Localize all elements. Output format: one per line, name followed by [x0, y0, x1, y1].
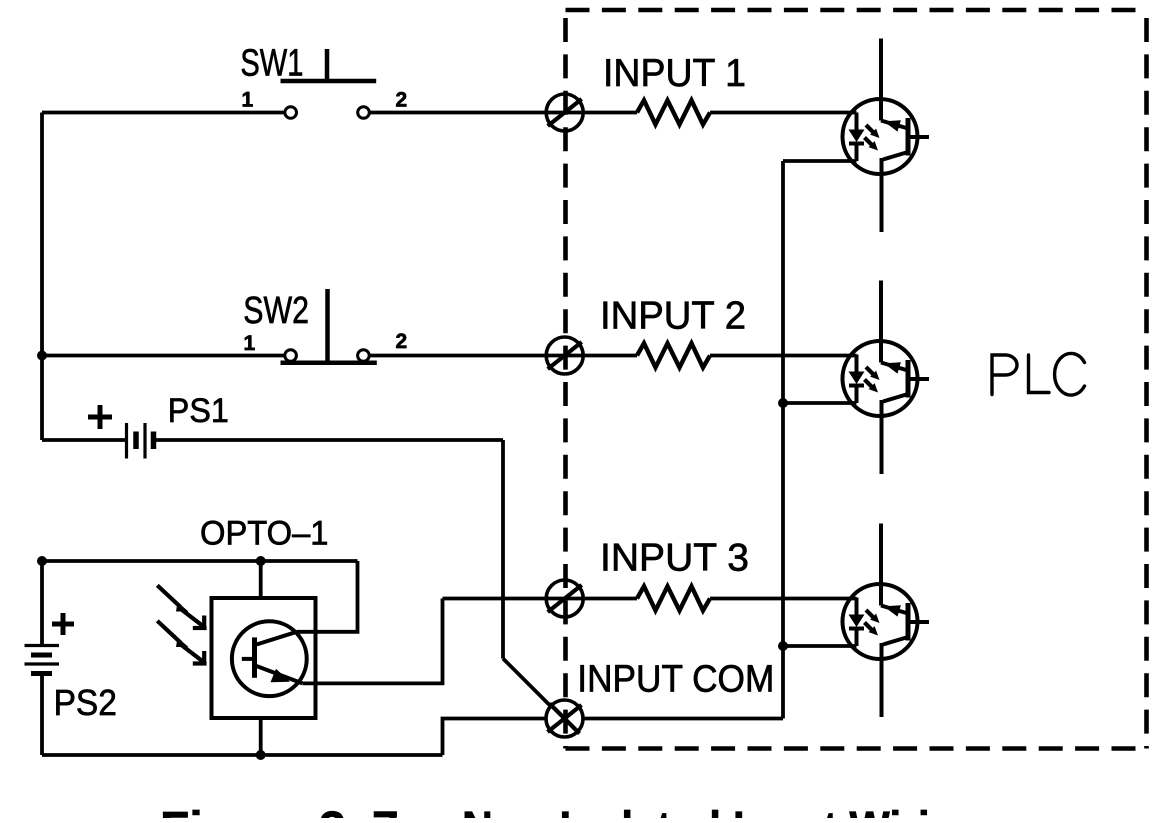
- terminal INPUT 2: [546, 337, 583, 374]
- wire OPTO-1 bottom lead: [259, 718, 263, 755]
- PLC enclosure dashed border top: [566, 8, 1147, 13]
- battery PS1 plates: [125, 423, 128, 459]
- switch SW1 actuator stem: [325, 49, 330, 81]
- svg-text:1: 1: [242, 89, 254, 112]
- wire row1 left: [42, 111, 285, 115]
- wire bottom riser to INPUT COM: [443, 719, 547, 756]
- wire left rail top section: [40, 113, 44, 441]
- switch SW2 contact 1: [285, 350, 297, 362]
- svg-text:3.7: 3.7: [319, 803, 405, 818]
- wire PS1 vertical drop: [501, 440, 505, 659]
- switch SW1 contact 2: [358, 107, 370, 119]
- wire row2 right: [710, 354, 857, 358]
- svg-text:SW2: SW2: [243, 290, 309, 332]
- wire return rail to INPUT COM: [583, 717, 783, 721]
- wire row2 left: [42, 354, 285, 358]
- wire OPTO-1 emitter out: [302, 599, 442, 684]
- switch SW2 actuator bar (closed): [281, 360, 377, 365]
- opto-coupler U1 (INPUT 1): [843, 39, 930, 233]
- OPTO-1 package box: [212, 598, 316, 718]
- node: junction PS2 top: [37, 556, 47, 566]
- transistor Q1 inside OPTO-1: [232, 621, 307, 696]
- svg-text:INPUT 1: INPUT 1: [603, 52, 746, 95]
- wire OPTO-1 top rail: [42, 559, 358, 563]
- battery PS2 plates: [25, 644, 60, 647]
- wire row1 middle: [369, 111, 637, 115]
- OPTO-1 light arrow upper: [157, 585, 206, 628]
- node: junction OPTO-1 top lead: [256, 556, 266, 566]
- node: junction rail/opto3 cathode: [778, 641, 788, 651]
- resistor R2 (INPUT 2): [637, 343, 710, 367]
- wire bottom return: [42, 753, 443, 757]
- wire OPTO-1 top lead: [259, 561, 263, 598]
- wire row3 left: [443, 597, 638, 601]
- wire PS2 bottom lead: [40, 674, 44, 756]
- PS1 plus sign: [88, 405, 112, 429]
- opto-coupler U2 (INPUT 2): [843, 281, 930, 475]
- node: junction OPTO-1 bottom: [256, 750, 266, 760]
- terminal INPUT 1: [546, 94, 583, 131]
- svg-text:2: 2: [396, 89, 408, 112]
- wire row1 right: [710, 111, 857, 115]
- terminal INPUT COM: [546, 700, 583, 737]
- terminal INPUT 3: [546, 580, 583, 617]
- wire opto2 cathode: [783, 401, 857, 405]
- node: junction left rail / SW2 row: [37, 351, 47, 361]
- wire row2 middle: [369, 354, 637, 358]
- switch SW2 actuator stem: [325, 289, 330, 363]
- wire PS1 right lead: [154, 438, 504, 442]
- OPTO-1 light arrow lower: [157, 621, 206, 664]
- resistor R3 (INPUT 3): [637, 586, 710, 610]
- resistor R1 (INPUT 1): [637, 100, 710, 124]
- svg-text:2: 2: [396, 330, 408, 353]
- wire PS1 left lead: [42, 438, 127, 442]
- svg-text:PS1: PS1: [168, 392, 229, 430]
- PLC enclosure dashed border right: [1144, 18, 1149, 749]
- wire OPTO-1 collector loop: [297, 561, 358, 632]
- switch SW1 actuator bar: [281, 79, 377, 84]
- svg-text:INPUT 3: INPUT 3: [600, 536, 749, 579]
- label PLC (plotter strokes): [992, 353, 1085, 395]
- svg-text:PS2: PS2: [54, 682, 117, 723]
- wire PS2 top lead: [40, 561, 44, 646]
- switch SW1 contact 1: [285, 107, 297, 119]
- svg-text:1: 1: [244, 332, 256, 355]
- svg-text:INPUT COM: INPUT COM: [577, 659, 774, 701]
- node: junction rail/opto2 cathode: [778, 398, 788, 408]
- PLC enclosure dashed border bottom: [566, 746, 1147, 751]
- wire diagonal to INPUT COM: [503, 659, 552, 708]
- wire LED return rail: [781, 161, 785, 719]
- svg-text:Figure: Figure: [160, 803, 307, 818]
- svg-text:SW1: SW1: [240, 42, 303, 84]
- opto-coupler U3 (INPUT 3): [843, 524, 930, 718]
- svg-text:OPTO–1: OPTO–1: [200, 515, 329, 553]
- PS2 plus sign: [52, 613, 74, 635]
- wire opto3 cathode: [783, 644, 857, 648]
- svg-text:INPUT 2: INPUT 2: [600, 295, 746, 338]
- wire opto1 cathode: [783, 159, 857, 163]
- PLC enclosure dashed border left: [563, 18, 568, 749]
- svg-text:Non-Isolated Input Wiring: Non-Isolated Input Wiring: [462, 803, 982, 818]
- wire row3 right: [710, 597, 857, 601]
- switch SW2 contact 2: [358, 350, 370, 362]
